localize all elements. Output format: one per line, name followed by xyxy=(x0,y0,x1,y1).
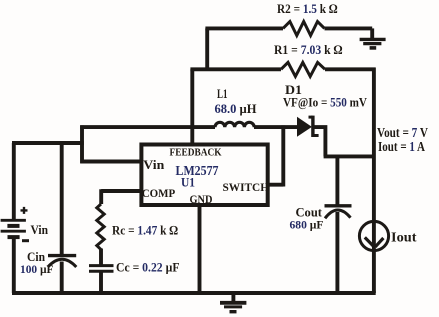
wire Cin branch xyxy=(60,143,64,254)
svg-text:L1: L1 xyxy=(217,86,228,101)
wire output rail xyxy=(372,68,376,294)
svg-text:VF@Io = 550 mV: VF@Io = 550 mV xyxy=(283,94,368,109)
wire R1 row xyxy=(190,67,375,71)
wire GND pin drop xyxy=(198,206,202,294)
svg-text:Iout = 1 A: Iout = 1 A xyxy=(378,139,425,154)
capacitor Cc xyxy=(89,266,114,272)
resistor R2 xyxy=(283,22,325,36)
svg-text:U1: U1 xyxy=(181,174,195,189)
wire Cc to ground rail xyxy=(99,272,103,294)
svg-text:Vin: Vin xyxy=(143,158,164,172)
wire COMP pin to Rc xyxy=(101,189,139,204)
svg-text:Rc = 1.47 k Ω: Rc = 1.47 k Ω xyxy=(112,223,178,238)
wire bottom ground rail xyxy=(12,291,376,295)
ground (bottom) xyxy=(220,294,246,312)
resistor Rc xyxy=(97,204,104,250)
svg-text:100 µF: 100 µF xyxy=(20,262,54,276)
svg-text:FEEDBACK: FEEDBACK xyxy=(170,146,222,158)
wire Rc to Cc xyxy=(99,249,103,266)
resistor R1 xyxy=(281,62,325,76)
wire R2 row xyxy=(205,26,372,30)
svg-text:Iout: Iout xyxy=(391,230,417,245)
svg-text:Cc = 0.22 µF: Cc = 0.22 µF xyxy=(116,259,180,274)
current source Iout xyxy=(359,221,388,250)
wire Cout branch bottom xyxy=(335,212,339,293)
wire Cout branch top xyxy=(335,155,339,205)
svg-text:R1 = 7.03 k Ω: R1 = 7.03 k Ω xyxy=(274,42,343,57)
svg-text:68.0 µH: 68.0 µH xyxy=(215,101,257,116)
svg-text:SWITCH: SWITCH xyxy=(223,180,270,194)
wire input corner to Vin pin xyxy=(80,125,139,163)
wire switch pin to top node xyxy=(268,125,284,186)
svg-text:GND: GND xyxy=(190,192,213,206)
wire feedback riser xyxy=(190,69,194,146)
wire Cin bottom xyxy=(60,262,64,294)
capacitor Cout xyxy=(325,206,352,219)
svg-text:COMP: COMP xyxy=(142,186,176,200)
inductor L1 xyxy=(215,122,254,127)
op-amp U1 LM2577 regulator box xyxy=(141,145,267,206)
wire diode cathode to rail xyxy=(314,127,374,156)
wire R2 tee riser xyxy=(205,28,209,69)
capacitor Cin xyxy=(48,256,77,267)
svg-text:Vout = 7 V: Vout = 7 V xyxy=(377,125,428,140)
svg-text:R2 = 1.5 k Ω: R2 = 1.5 k Ω xyxy=(277,1,338,16)
wire battery top rail xyxy=(12,141,84,145)
wire top node to inductor xyxy=(80,125,215,129)
svg-text:Vin: Vin xyxy=(31,222,49,237)
ground (R2) xyxy=(360,28,386,48)
wire inductor to diode xyxy=(254,125,299,129)
battery V_in source xyxy=(1,143,29,293)
diode D1 xyxy=(297,116,319,137)
svg-text:680 µF: 680 µF xyxy=(290,217,324,231)
